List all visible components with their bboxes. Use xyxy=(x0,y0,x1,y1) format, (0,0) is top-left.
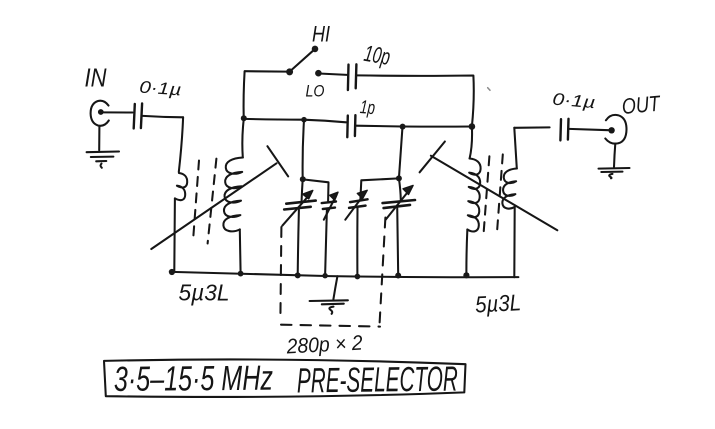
wire bracket2 junction to VC4 xyxy=(399,178,401,200)
wire VC3 bottom to bus xyxy=(356,208,358,277)
inductor L2 (left big winding) xyxy=(223,158,242,274)
capacitor C-out 0.1u xyxy=(560,119,568,141)
node junction bracket1 xyxy=(300,176,306,182)
wire LO contact to C-10p xyxy=(322,74,348,75)
wire C-10p to right corner and down xyxy=(357,75,474,126)
svg-text:0·1µ: 0·1µ xyxy=(552,90,597,113)
svg-text:LO: LO xyxy=(306,82,325,101)
dashed gang box left edge xyxy=(280,227,281,318)
transformer core T1 (dashed) xyxy=(193,159,216,244)
dashed gang box bottom edge xyxy=(281,325,380,327)
wire VC4 bottom to bus xyxy=(397,206,398,275)
svg-text:0·1µ: 0·1µ xyxy=(139,78,182,100)
variable capacitor VC2 plates xyxy=(322,202,336,210)
wire VC1 bottom to bus xyxy=(298,210,299,276)
switch S1 HI contact dot xyxy=(312,46,319,53)
wire C-out to OUT jack xyxy=(569,129,609,130)
wire bracket2 to VC3 xyxy=(360,178,398,199)
node junction tank2 top xyxy=(400,124,406,130)
connector J2 OUT jack xyxy=(605,115,626,144)
node junction tank1 top xyxy=(301,117,307,123)
inductor L4 (right small winding) xyxy=(502,128,516,277)
arrow variable L2 xyxy=(151,146,288,249)
wire main vertical 2 top xyxy=(399,127,403,179)
transformer core T2 (dashed) xyxy=(484,154,503,233)
switch S1 LO contact dot xyxy=(315,70,322,77)
svg-text:5µ3L: 5µ3L xyxy=(474,289,521,317)
svg-text:OUT: OUT xyxy=(621,91,662,119)
wire left vertical to L1 xyxy=(179,117,183,172)
wire 1p rail left segment xyxy=(244,119,346,122)
variable capacitor VC4 plates xyxy=(383,200,415,208)
wire main vertical 1 top xyxy=(303,120,304,179)
svg-text:10p: 10p xyxy=(362,40,392,70)
ground OUT jack xyxy=(599,144,630,179)
wire VC2 bottom to bus xyxy=(325,209,327,276)
dashed gang box right edge xyxy=(380,218,386,324)
ground IN jack xyxy=(87,126,119,168)
variable capacitor VC1 plates xyxy=(284,201,316,210)
wire L1 to bus xyxy=(173,198,176,271)
node junction right corner xyxy=(469,123,476,130)
node bus dots xyxy=(169,269,470,280)
bus wire bottom xyxy=(172,272,519,277)
arrow VC4 xyxy=(386,185,413,219)
wire bracket1 to VC2 xyxy=(303,179,329,201)
svg-text:280p × 2: 280p × 2 xyxy=(285,332,363,359)
wire L4 top to C-out xyxy=(514,126,549,128)
wire switch feed horizontal xyxy=(245,70,287,72)
wire left vertical (switch to 1p rail) xyxy=(244,71,245,118)
node junction bracket2 xyxy=(396,175,402,181)
wire 1p rail right segment xyxy=(356,125,472,128)
node junction left rail xyxy=(241,115,247,121)
arrow VC2 xyxy=(324,192,338,220)
connector J1 IN jack xyxy=(91,101,109,126)
switch S1 arm xyxy=(292,51,313,69)
variable capacitor VC3 plates xyxy=(349,199,367,208)
svg-text:3·5–15·5 MHz: 3·5–15·5 MHz xyxy=(114,359,274,399)
wire C-in to left tank xyxy=(143,116,183,117)
ground mid xyxy=(310,276,348,314)
inductor L1 (left small winding) xyxy=(175,173,187,200)
inductor L3 (right big winding) xyxy=(466,127,480,276)
capacitor C-in 0.1u xyxy=(134,103,142,128)
svg-text:HI: HI xyxy=(312,22,330,47)
svg-text:PRE-SELECTOR: PRE-SELECTOR xyxy=(297,360,458,401)
capacitor C-10p xyxy=(348,64,357,90)
arrow variable L3 xyxy=(420,142,558,231)
stray ink speck xyxy=(488,88,490,91)
wire main vertical 1 to VC1 xyxy=(302,179,303,200)
arrow VC1 xyxy=(282,190,313,225)
arrow VC3 xyxy=(345,190,367,219)
title box xyxy=(104,359,466,397)
switch S1 pole dot xyxy=(286,68,293,75)
capacitor C-1p xyxy=(347,115,355,137)
wire J1 to C-in xyxy=(104,111,133,113)
svg-text:IN: IN xyxy=(85,63,107,93)
svg-text:5µ3L: 5µ3L xyxy=(179,280,230,306)
svg-text:1p: 1p xyxy=(359,97,376,119)
wire left rail down to L2 xyxy=(242,119,243,158)
